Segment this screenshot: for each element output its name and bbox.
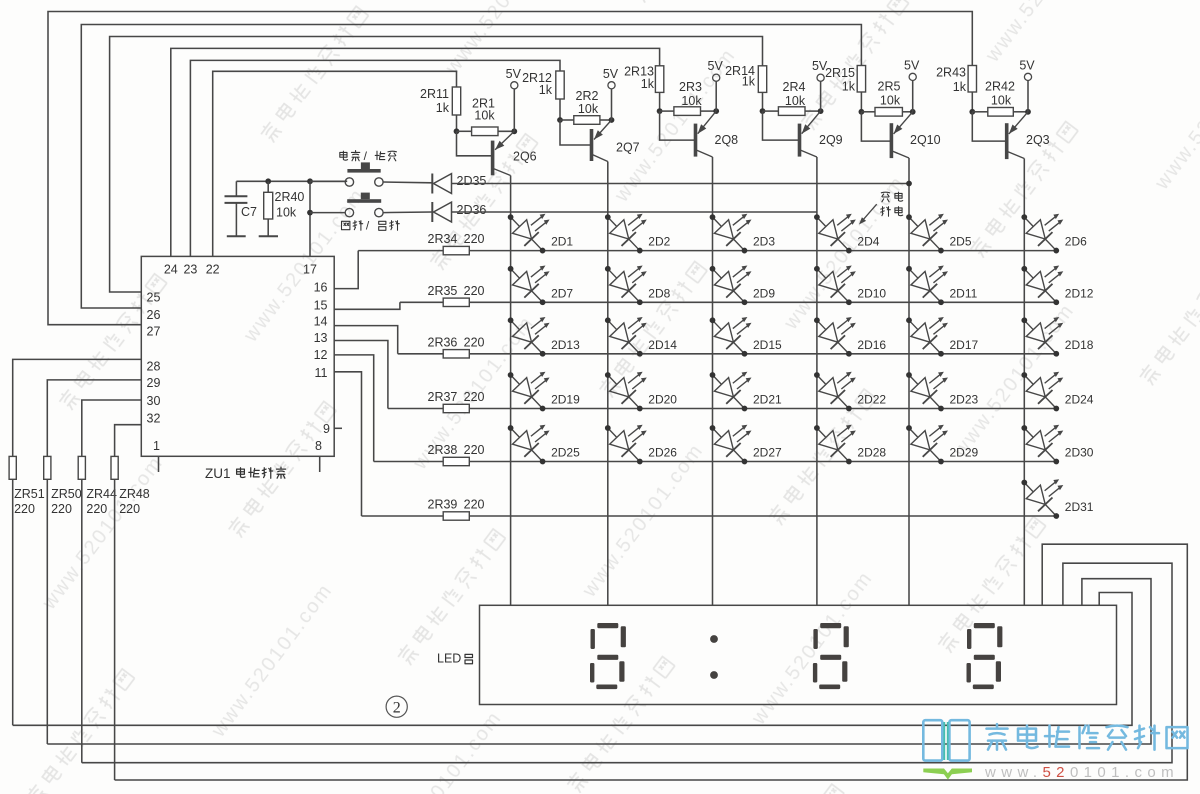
LED 2D24 bbox=[1015, 354, 1078, 418]
svg-text:220: 220 bbox=[86, 502, 107, 516]
svg-text:1k: 1k bbox=[539, 83, 553, 97]
svg-text:2D22: 2D22 bbox=[857, 393, 886, 407]
resistor 2R42 10k bbox=[972, 111, 988, 113]
wire LED row 1 bbox=[358, 250, 443, 252]
svg-text:2D21: 2D21 bbox=[753, 393, 782, 407]
svg-text:32: 32 bbox=[147, 412, 161, 426]
resistor 2R36 220 bbox=[443, 350, 469, 358]
svg-text:2D25: 2D25 bbox=[551, 446, 580, 460]
svg-text:ZU1: ZU1 bbox=[205, 466, 231, 481]
svg-text:www.520101.com: www.520101.com bbox=[376, 707, 506, 794]
wire pin27 to 2R43 (outer loop) bbox=[48, 12, 972, 325]
wire LED row 3 bbox=[398, 353, 444, 355]
svg-text:10k: 10k bbox=[474, 109, 495, 123]
svg-text:ZR48: ZR48 bbox=[119, 487, 150, 501]
svg-text:2R42: 2R42 bbox=[985, 80, 1015, 94]
svg-text:2D15: 2D15 bbox=[753, 338, 782, 352]
7-segment digit 1 bbox=[597, 623, 618, 628]
svg-text:2: 2 bbox=[393, 700, 401, 717]
LED 2D17 bbox=[900, 299, 963, 363]
svg-text:1: 1 bbox=[153, 439, 160, 453]
svg-text:2R11: 2R11 bbox=[420, 87, 449, 101]
resistor 2R11 1k bbox=[452, 87, 460, 115]
svg-text:25: 25 bbox=[147, 291, 161, 305]
svg-text:2D1: 2D1 bbox=[551, 235, 573, 249]
LED 2D1 bbox=[501, 196, 564, 260]
5V supply terminal (2Q9) bbox=[817, 74, 824, 81]
wire collector column 2Q3 bbox=[1023, 159, 1025, 606]
svg-text:2R34 220: 2R34 220 bbox=[428, 232, 485, 246]
svg-text:C7: C7 bbox=[241, 205, 257, 219]
svg-text:15: 15 bbox=[314, 299, 328, 313]
svg-text:2R3: 2R3 bbox=[679, 80, 702, 94]
LED 2D3 bbox=[703, 196, 766, 260]
LED 2D4 bbox=[808, 196, 871, 260]
5V supply terminal (2Q7) bbox=[608, 82, 615, 89]
wire button2 left bbox=[310, 212, 345, 214]
LED 2D14 bbox=[599, 299, 662, 363]
svg-text:2Q8: 2Q8 bbox=[715, 133, 739, 147]
svg-text:16: 16 bbox=[314, 281, 328, 295]
LED 2D11 bbox=[900, 248, 963, 312]
svg-text:13: 13 bbox=[314, 331, 328, 345]
svg-text:www.520101.com: www.520101.com bbox=[38, 452, 168, 614]
svg-text:10k: 10k bbox=[785, 94, 806, 108]
LED 2D5 bbox=[900, 196, 963, 260]
svg-text:2D7: 2D7 bbox=[551, 286, 573, 300]
svg-text:26: 26 bbox=[147, 308, 161, 322]
wire bottom rail 3 bbox=[82, 563, 1172, 763]
wire 1k to 10k node bbox=[971, 92, 973, 112]
svg-text:220: 220 bbox=[51, 502, 72, 516]
wire pin to ZR50 bbox=[47, 380, 141, 457]
wire bbox=[469, 515, 1056, 517]
svg-text:2D13: 2D13 bbox=[551, 338, 580, 352]
svg-text:10k: 10k bbox=[276, 206, 297, 220]
svg-text:2D30: 2D30 bbox=[1065, 446, 1094, 460]
wire button1 left bbox=[310, 180, 345, 182]
logo green book base bbox=[923, 769, 972, 780]
op-amp U1: IC ZU1 display driver bbox=[141, 256, 334, 456]
wire 2D35 anode to 2Q10 collector bbox=[452, 183, 910, 185]
wire LED row 4 bbox=[388, 408, 443, 410]
transistor 2Q7 bbox=[590, 129, 594, 161]
wire down to bottom rail bbox=[46, 479, 48, 744]
svg-text:/: / bbox=[364, 149, 368, 163]
wire 1k to 10k node bbox=[762, 92, 764, 111]
LED 2D10 bbox=[808, 248, 871, 312]
svg-text:2Q9: 2Q9 bbox=[819, 133, 843, 147]
resistor ZR50 220 bbox=[44, 456, 51, 479]
svg-text:2R36 220: 2R36 220 bbox=[428, 335, 485, 349]
LED 2D21 bbox=[703, 354, 766, 418]
wire pin15 to row 2R35 bbox=[334, 302, 400, 309]
svg-text:11: 11 bbox=[315, 366, 328, 380]
wire pin12 to row 2R38 bbox=[334, 355, 374, 462]
svg-text:220: 220 bbox=[119, 502, 140, 516]
LED 2D28 bbox=[808, 407, 871, 471]
svg-text:1k: 1k bbox=[436, 101, 450, 115]
svg-text:2R35 220: 2R35 220 bbox=[428, 284, 485, 298]
svg-text:2Q6: 2Q6 bbox=[513, 150, 537, 164]
svg-text:2D26: 2D26 bbox=[648, 446, 677, 460]
wire pin11 to row 2R39 bbox=[334, 372, 361, 516]
svg-text:2R39 220: 2R39 220 bbox=[428, 498, 485, 512]
resistor ZR44 220 bbox=[78, 456, 85, 479]
LED 2D29 bbox=[900, 407, 963, 471]
wire pin to ZR51 bbox=[13, 359, 142, 456]
resistor 2R4 10k bbox=[763, 110, 779, 112]
wire 1k to 10k node bbox=[659, 92, 661, 111]
wire bbox=[469, 461, 1058, 463]
svg-text:2D14: 2D14 bbox=[648, 338, 677, 352]
svg-text:2R5: 2R5 bbox=[878, 80, 901, 94]
wire pin14 to row 2R36 bbox=[334, 326, 398, 354]
svg-text:www.520101.com: www.520101.com bbox=[207, 579, 337, 741]
wire pin25 to 2R14 bbox=[110, 37, 763, 293]
transistor 2Q9 bbox=[798, 124, 802, 157]
svg-text:22: 22 bbox=[206, 263, 220, 277]
svg-text:2D2: 2D2 bbox=[648, 235, 670, 249]
svg-text:2R43: 2R43 bbox=[936, 66, 966, 80]
LED 2D16 bbox=[808, 299, 871, 363]
push button power on/off (kaiji/guanji) bbox=[345, 208, 353, 216]
LED 2D25 bbox=[501, 407, 564, 471]
wire button1 right to 2D35 bbox=[383, 181, 432, 184]
figure number (2) bbox=[386, 696, 407, 717]
LED 2D8 bbox=[599, 248, 662, 312]
svg-text:23: 23 bbox=[183, 263, 197, 277]
svg-text:2D18: 2D18 bbox=[1065, 338, 1094, 352]
svg-text:2D19: 2D19 bbox=[551, 393, 580, 407]
wire pin16 to row 2R34 bbox=[334, 251, 358, 289]
wire bottom rail 4 bbox=[115, 544, 1188, 780]
wire pin26 to 2R15 bbox=[81, 25, 861, 309]
svg-text:1k: 1k bbox=[842, 80, 856, 94]
transistor 2Q8 bbox=[694, 124, 698, 157]
resistor 2R35 220 bbox=[443, 298, 469, 306]
svg-text:2Q3: 2Q3 bbox=[1026, 133, 1050, 147]
annotation reverse leakage (fanxiang loudian) bbox=[881, 192, 889, 202]
svg-text:10k: 10k bbox=[681, 94, 702, 108]
LED 2D6 bbox=[1015, 196, 1078, 260]
svg-text:2R2: 2R2 bbox=[576, 89, 599, 103]
node wire (pin17 net) top bbox=[236, 180, 347, 182]
LED 2D31 bbox=[1015, 461, 1078, 525]
transistor 2Q3 bbox=[1005, 123, 1009, 159]
svg-text:ZR51: ZR51 bbox=[14, 487, 45, 501]
resistor 2R12 1k bbox=[556, 71, 564, 99]
LED 2D26 bbox=[599, 407, 662, 471]
svg-text:1k: 1k bbox=[953, 80, 967, 94]
wire pin23 to 2R12 bbox=[190, 60, 560, 256]
svg-text:10k: 10k bbox=[578, 102, 599, 116]
resistor ZR51 220 bbox=[9, 456, 16, 479]
svg-text:2D17: 2D17 bbox=[950, 338, 979, 352]
svg-text:2R4: 2R4 bbox=[783, 80, 806, 94]
wire down to bottom rail bbox=[114, 479, 116, 780]
LED 2D18 bbox=[1015, 299, 1078, 363]
svg-text:ZR50: ZR50 bbox=[51, 487, 82, 501]
svg-text:1k: 1k bbox=[641, 77, 655, 91]
LED 2D23 bbox=[900, 354, 963, 418]
svg-text:2D8: 2D8 bbox=[648, 286, 670, 300]
wire pin13 to row 2R37 bbox=[334, 341, 388, 409]
wire button2 right to 2D36 bbox=[383, 211, 432, 214]
resistor 2R1 10k bbox=[457, 130, 472, 132]
ground (C7) bbox=[227, 235, 246, 237]
wire 1k to 10k node bbox=[456, 115, 458, 131]
svg-text:2R38 220: 2R38 220 bbox=[428, 443, 485, 457]
svg-text:2D3: 2D3 bbox=[753, 235, 775, 249]
resistor ZR48 220 bbox=[111, 456, 118, 479]
resistor 2R14 1k bbox=[758, 66, 766, 93]
LED 2D9 bbox=[703, 248, 766, 312]
resistor 2R15 1k bbox=[857, 66, 865, 93]
svg-text:5V: 5V bbox=[506, 67, 522, 81]
resistor 2R40 10k bbox=[265, 178, 271, 184]
svg-text:2D16: 2D16 bbox=[857, 338, 886, 352]
wire down to bottom rail bbox=[12, 479, 14, 725]
svg-text:2D6: 2D6 bbox=[1065, 235, 1087, 249]
LED 2D30 bbox=[1015, 407, 1078, 471]
7-segment digit 2 bbox=[820, 623, 841, 628]
wire 1k to 10k node bbox=[559, 99, 561, 120]
resistor 2R13 1k bbox=[655, 66, 663, 93]
svg-text:2Q10: 2Q10 bbox=[910, 133, 941, 147]
wire pin24 to 2R13 bbox=[171, 48, 660, 256]
wire bottom rail 1 bbox=[13, 593, 1132, 726]
ground (2R40) bbox=[259, 235, 278, 237]
svg-text:www.520101.com: www.520101.com bbox=[981, 0, 1111, 67]
svg-text:www.520101.com: www.520101.com bbox=[984, 764, 1179, 781]
logo book icon bbox=[923, 720, 942, 760]
svg-text:17: 17 bbox=[303, 263, 317, 277]
LED 2D7 bbox=[501, 248, 564, 312]
push button start/stop (qidong/zhuanting) bbox=[345, 178, 353, 186]
svg-text:2D35: 2D35 bbox=[457, 174, 487, 188]
wire pin to ZR48 bbox=[115, 425, 142, 457]
LED 2D20 bbox=[599, 354, 662, 418]
svg-text:2R40: 2R40 bbox=[275, 190, 305, 204]
transistor 2Q10 bbox=[890, 123, 894, 158]
svg-text:5V: 5V bbox=[708, 59, 724, 73]
svg-text:2D12: 2D12 bbox=[1065, 286, 1094, 300]
LED 2D2 bbox=[599, 196, 662, 260]
wire bottom rail 2 bbox=[47, 579, 1151, 744]
7-segment digit 3 bbox=[974, 623, 995, 628]
wire bbox=[469, 353, 1058, 355]
svg-text:10k: 10k bbox=[991, 94, 1012, 108]
resistor 2R3 10k bbox=[660, 110, 674, 112]
svg-text:1k: 1k bbox=[742, 75, 756, 89]
svg-text:www.520101.com: www.520101.com bbox=[780, 172, 910, 334]
wire collector column 2Q7 bbox=[607, 162, 609, 606]
svg-text:2R37 220: 2R37 220 bbox=[428, 390, 485, 404]
wire collector column 2Q8 bbox=[712, 157, 714, 605]
5V supply terminal (2Q8) bbox=[713, 74, 720, 81]
svg-text:5V: 5V bbox=[603, 67, 619, 81]
resistor 2R39 220 bbox=[443, 512, 469, 520]
label qidong/zhuanting bbox=[340, 151, 348, 160]
svg-text:2D20: 2D20 bbox=[648, 393, 677, 407]
svg-text:29: 29 bbox=[147, 376, 161, 390]
resistor 2R43 1k bbox=[968, 66, 976, 93]
svg-text:LED: LED bbox=[437, 652, 461, 666]
wire collector column 2Q9 bbox=[816, 157, 818, 605]
wire down to bottom rail bbox=[81, 479, 83, 762]
wire bbox=[469, 408, 1058, 410]
label kaiji/guanji bbox=[342, 221, 350, 229]
logo site name (jiadian weixiu ziliao wang) bbox=[987, 724, 1008, 750]
resistor 2R2 10k bbox=[560, 119, 574, 121]
colon bbox=[710, 635, 718, 643]
LED 2D13 bbox=[501, 299, 564, 363]
wire collector column 2Q6 bbox=[510, 176, 512, 606]
wire bbox=[469, 301, 1058, 303]
svg-text:2D29: 2D29 bbox=[950, 446, 979, 460]
resistor 2R37 220 bbox=[443, 404, 469, 412]
LED 2D19 bbox=[501, 354, 564, 418]
wire 1k to 10k node bbox=[860, 92, 862, 112]
svg-text:220: 220 bbox=[14, 502, 35, 516]
svg-text:12: 12 bbox=[314, 348, 328, 362]
LED 2D15 bbox=[703, 299, 766, 363]
svg-text:30: 30 bbox=[147, 394, 161, 408]
svg-text:14: 14 bbox=[314, 315, 328, 329]
5V supply terminal (2Q3) bbox=[1024, 73, 1031, 80]
svg-text:www.520101.com: www.520101.com bbox=[578, 440, 708, 602]
svg-text:2D4: 2D4 bbox=[857, 235, 879, 249]
svg-text:9: 9 bbox=[323, 422, 330, 436]
wire bbox=[469, 250, 1058, 252]
svg-text:8: 8 bbox=[315, 439, 322, 453]
wire node to pin 17 bbox=[307, 178, 313, 184]
LED 2D12 bbox=[1015, 248, 1078, 312]
svg-text:2D36: 2D36 bbox=[457, 203, 487, 217]
wire LED row 5 bbox=[374, 461, 444, 463]
LED display panel box bbox=[480, 605, 1117, 704]
svg-text:2D24: 2D24 bbox=[1065, 393, 1094, 407]
resistor 2R34 220 bbox=[443, 246, 469, 254]
wire LED row 2 bbox=[400, 301, 443, 303]
wire pin22 to 2R11 bbox=[213, 71, 457, 256]
diode 2D35 bbox=[431, 174, 433, 194]
svg-text:27: 27 bbox=[147, 325, 161, 339]
capacitor C7 bbox=[235, 181, 237, 196]
svg-text:2D5: 2D5 bbox=[950, 235, 972, 249]
svg-text:2R15: 2R15 bbox=[825, 66, 855, 80]
svg-text:5V: 5V bbox=[1019, 58, 1035, 72]
svg-text:2D28: 2D28 bbox=[857, 446, 886, 460]
svg-text:2D10: 2D10 bbox=[857, 286, 886, 300]
svg-text:2D31: 2D31 bbox=[1065, 500, 1094, 514]
svg-text:2D11: 2D11 bbox=[950, 286, 978, 300]
svg-text:28: 28 bbox=[147, 360, 161, 374]
svg-text:www.520101.com: www.520101.com bbox=[1150, 32, 1200, 194]
wire 2D36 anode to 2Q9 collector bbox=[452, 211, 817, 213]
LED 2D22 bbox=[808, 354, 871, 418]
5V supply terminal (2Q6) bbox=[511, 82, 518, 89]
svg-text:ZR44: ZR44 bbox=[86, 487, 117, 501]
svg-text:2Q7: 2Q7 bbox=[616, 141, 640, 155]
diode 2D36 bbox=[431, 202, 433, 222]
wire LED row 6 bbox=[362, 515, 444, 517]
LED 2D27 bbox=[703, 407, 766, 471]
svg-text:/: / bbox=[366, 219, 370, 233]
svg-text:10k: 10k bbox=[880, 94, 901, 108]
wire collector column 2Q10 bbox=[908, 158, 910, 605]
wire pin to ZR44 bbox=[82, 400, 142, 456]
svg-text:2D9: 2D9 bbox=[753, 286, 775, 300]
resistor 2R5 10k bbox=[861, 111, 875, 113]
svg-text:5V: 5V bbox=[904, 58, 920, 72]
svg-text:24: 24 bbox=[164, 263, 178, 277]
svg-text:2D23: 2D23 bbox=[950, 393, 979, 407]
transistor 2Q6 bbox=[491, 141, 495, 176]
5V supply terminal (2Q10) bbox=[909, 73, 916, 80]
svg-text:2D27: 2D27 bbox=[753, 446, 782, 460]
resistor 2R38 220 bbox=[443, 457, 469, 465]
